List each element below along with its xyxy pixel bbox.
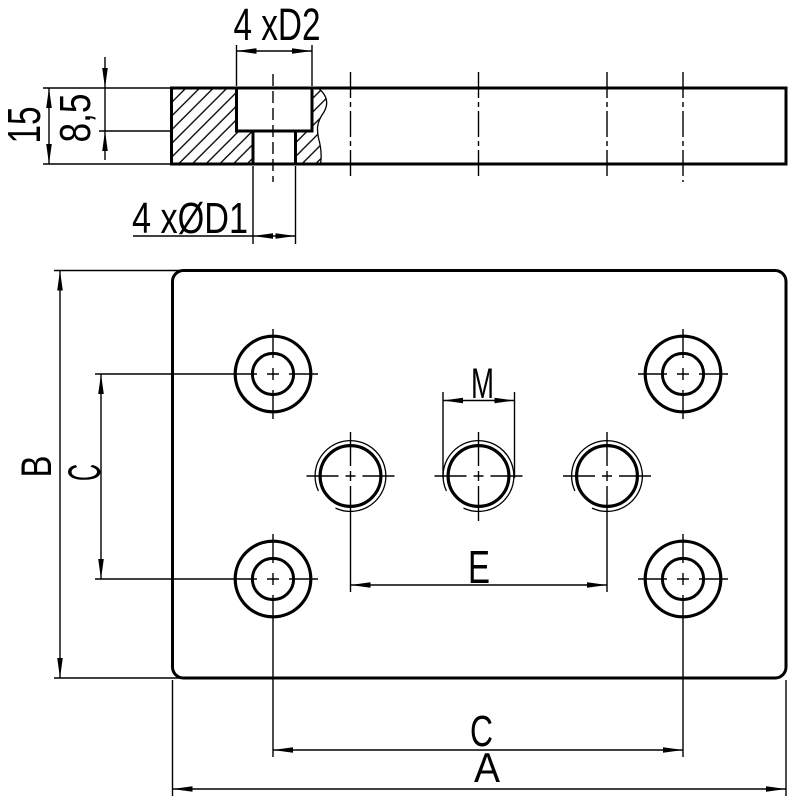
dim C bottom arrow right xyxy=(663,747,683,753)
dim A arrow right xyxy=(766,786,786,792)
dim M arrow left xyxy=(443,398,463,404)
dim B line xyxy=(59,271,61,679)
svg-text:4 xD2: 4 xD2 xyxy=(234,0,321,50)
svg-text:C: C xyxy=(59,464,110,481)
dim C left arrow bottom xyxy=(98,559,104,579)
centerline column 2 xyxy=(350,72,352,178)
tapped hole 1 crosshair xyxy=(307,432,395,592)
dim 8,5 extension xyxy=(99,130,171,132)
dim E arrow left xyxy=(351,582,371,588)
svg-text:A: A xyxy=(474,744,500,791)
svg-text:15: 15 xyxy=(0,107,50,144)
plate plan outline xyxy=(173,271,787,679)
hatch below counterbore right xyxy=(296,131,313,164)
dim M extension right xyxy=(514,392,516,478)
centerline sectioned hole xyxy=(272,74,274,182)
dim 4xOD1 arrow right xyxy=(276,233,296,239)
dim 4xD2 arrow right xyxy=(292,48,312,54)
hole BR inner xyxy=(662,558,703,599)
dim 15 arrow top xyxy=(46,88,52,108)
dim M arrow right xyxy=(495,398,515,404)
tapped hole 1 thread arc xyxy=(315,441,386,512)
plate side outline xyxy=(172,88,787,164)
dim 8,5 line xyxy=(104,57,106,160)
drilled hole right edge xyxy=(294,131,297,164)
svg-text:B: B xyxy=(13,456,61,478)
svg-text:8,5: 8,5 xyxy=(51,94,100,143)
dim C bottom line xyxy=(273,749,683,751)
hole BL inner xyxy=(252,558,293,599)
tapped hole 2 thread arc xyxy=(443,441,514,512)
dim B arrow bottom xyxy=(57,658,63,678)
dim 4xOD1 extension right xyxy=(295,166,297,244)
hole TL crosshair xyxy=(95,329,318,419)
dim C left arrow top xyxy=(98,374,104,394)
dim M extension left xyxy=(442,392,444,478)
counterbore outline xyxy=(237,88,313,131)
dim 4xD2 arrow left xyxy=(237,48,257,54)
dim E line xyxy=(351,584,608,586)
centerline column 3 xyxy=(478,72,480,178)
hatch left block xyxy=(172,88,237,164)
hatch below counterbore left xyxy=(237,131,254,164)
dim 15 extension bottom xyxy=(43,163,170,165)
dim B extension top xyxy=(54,270,182,272)
dim A extension left xyxy=(172,680,174,796)
tapped hole 1 bold circle xyxy=(320,446,381,507)
dim M line xyxy=(443,400,515,402)
dim 8,5 arrow top xyxy=(102,68,108,88)
dim A arrow left xyxy=(173,786,193,792)
tapped hole 3 thread arc xyxy=(572,441,643,512)
dim 4xOD1 arrow left xyxy=(253,233,273,239)
hole TL inner xyxy=(252,353,293,394)
dim 15 arrow bottom xyxy=(46,144,52,164)
tapped hole 3 crosshair xyxy=(563,432,651,592)
hole TL outer xyxy=(235,336,311,412)
hole BL outer xyxy=(235,541,311,617)
dim 15 extension top xyxy=(43,87,170,89)
drilled hole left edge xyxy=(252,131,255,164)
dim C bottom arrow left xyxy=(273,747,293,753)
dim 4xD2 extension line left xyxy=(236,45,238,86)
dim 4xD2 extension line right xyxy=(311,45,313,86)
hatch block at break line xyxy=(312,88,327,164)
centerline column 5 xyxy=(682,72,684,182)
dim C left line xyxy=(100,374,102,579)
hole BL crosshair xyxy=(95,534,318,757)
tapped hole 3 bold circle xyxy=(577,446,638,507)
hole TR inner xyxy=(662,353,703,394)
dim B extension bottom xyxy=(54,677,182,679)
dim 4xOD1 leader and line xyxy=(133,235,296,237)
hole TR crosshair xyxy=(638,329,728,419)
centerline column 4 xyxy=(606,72,608,178)
break line zigzag xyxy=(317,88,326,164)
dim 15 line xyxy=(48,88,50,164)
dim A line xyxy=(173,788,787,790)
dim 8,5 arrow bottom xyxy=(102,131,108,151)
hole TR outer xyxy=(645,336,721,412)
hole BR outer xyxy=(645,541,721,617)
dim 4xOD1 extension left xyxy=(252,166,254,244)
dim E arrow right xyxy=(587,582,607,588)
dim B arrow top xyxy=(57,271,63,291)
hole BR crosshair xyxy=(638,534,728,757)
tapped hole 2 bold circle xyxy=(448,446,509,507)
tapped hole 2 crosshair xyxy=(435,432,523,521)
dim A extension right xyxy=(785,680,787,796)
dim 4xD2 line xyxy=(237,50,313,52)
